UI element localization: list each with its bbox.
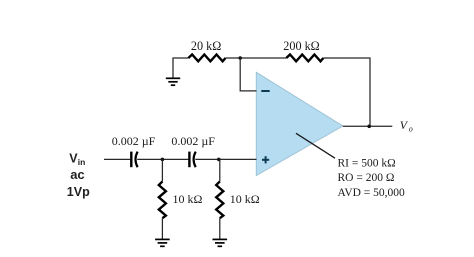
svg-text:in: in (78, 157, 86, 167)
pin + (non-inverting input sign) (262, 156, 269, 163)
node B (junction dot) (161, 158, 165, 162)
resistor 20 kOhm (188, 55, 225, 62)
capacitor C2 0.002uF (189, 152, 195, 168)
resistor R4 10 kOhm (216, 181, 223, 218)
ground (top left) (166, 78, 180, 85)
svg-text:20 kΩ: 20 kΩ (191, 39, 221, 53)
wire (R4 to ground) (219, 218, 221, 238)
svg-text:200 kΩ: 200 kΩ (283, 39, 319, 53)
svg-text:V: V (400, 118, 409, 132)
wire (C1 to C2 across node B) (137, 158, 189, 160)
node A (junction dot) (238, 56, 242, 60)
svg-text:0.002 µF: 0.002 µF (171, 134, 215, 148)
svg-text:10 kΩ: 10 kΩ (230, 192, 260, 206)
wire (node A down to inverting input) (240, 58, 256, 91)
svg-text:1Vp: 1Vp (67, 185, 90, 199)
svg-text:AVD = 50,000: AVD = 50,000 (338, 187, 406, 199)
op-amp U1 (256, 72, 343, 175)
wire (20k to 200k across node A) (226, 57, 287, 59)
svg-text:0.002 µF: 0.002 µF (112, 134, 156, 148)
wire (node C down to R4) (219, 159, 221, 181)
ground (below R3) (155, 239, 170, 246)
node (output junction dot) (367, 125, 371, 129)
label Vin / ac / 1Vp (67, 152, 90, 200)
svg-text:10 kΩ: 10 kΩ (173, 192, 203, 206)
ground (below R4) (213, 239, 228, 246)
wire (200k to right, down to output) (323, 58, 370, 126)
wire (top ground to 20k) (173, 58, 188, 78)
wire (op-amp output) (343, 125, 393, 127)
pin - (inverting input sign) (261, 90, 269, 92)
svg-text:ac: ac (70, 167, 84, 182)
node C (junction dot) (217, 158, 221, 162)
wire (node B down to R3) (161, 159, 163, 181)
resistor 200 kOhm (286, 55, 323, 62)
callout leader line (296, 133, 335, 158)
wire (R3 to ground) (161, 218, 163, 238)
wire (C2 to + input across node C) (195, 158, 256, 160)
svg-text:RO = 200 Ω: RO = 200 Ω (338, 172, 395, 184)
resistor R3 10 kOhm (159, 181, 166, 218)
wire (input lead) (104, 158, 130, 160)
label Vo (400, 118, 413, 134)
capacitor C1 0.002uF (131, 152, 137, 168)
svg-text:RI = 500 kΩ: RI = 500 kΩ (338, 157, 396, 169)
svg-text:o: o (409, 125, 413, 134)
